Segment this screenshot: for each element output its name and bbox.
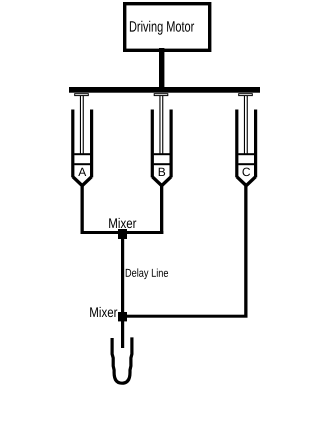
syringe C plunger cap bbox=[239, 94, 253, 96]
delay line wire vertical bbox=[121, 234, 124, 318]
mixer 1 junction bbox=[118, 229, 127, 239]
syringe C piston face bbox=[238, 153, 254, 155]
syringe B plunger rod bbox=[159, 96, 160, 154]
syringe C plunger rod bbox=[244, 96, 245, 154]
syringe B funnel bbox=[152, 177, 171, 186]
syringe C outlet wire vertical bbox=[244, 184, 247, 318]
syringe B liquid top line bbox=[154, 163, 170, 165]
collection tube inlet wire bbox=[121, 318, 124, 348]
collection tube bbox=[112, 337, 132, 383]
syringe A liquid top line bbox=[74, 163, 90, 165]
mixer 2 junction bbox=[118, 312, 127, 321]
syringe B barrel right wall bbox=[170, 110, 173, 178]
driving motor box bbox=[125, 4, 210, 51]
svg-text:Driving Motor: Driving Motor bbox=[129, 19, 194, 36]
svg-text:Delay Line: Delay Line bbox=[125, 268, 169, 280]
syringe A piston face bbox=[74, 153, 90, 155]
syringe C funnel bbox=[237, 177, 256, 186]
syringe A plunger rod bbox=[80, 96, 81, 154]
crossbar bbox=[69, 87, 260, 93]
syringe A barrel right wall bbox=[90, 110, 93, 178]
svg-text:Mixer: Mixer bbox=[108, 215, 136, 231]
svg-text:B: B bbox=[158, 165, 166, 179]
syringe B barrel left wall bbox=[151, 110, 154, 178]
svg-text:Mixer: Mixer bbox=[89, 304, 117, 320]
syringe B outlet needle wire bbox=[160, 184, 163, 235]
syringe A plunger cap bbox=[75, 94, 89, 96]
syringe B plunger cap bbox=[154, 94, 168, 96]
wire C to mixer 2 horizontal bbox=[122, 315, 248, 318]
svg-text:A: A bbox=[78, 165, 86, 179]
syringe A barrel left wall bbox=[71, 110, 74, 178]
syringe C barrel right wall bbox=[254, 110, 257, 178]
syringe A funnel bbox=[73, 177, 92, 186]
wire A-B manifold horizontal bbox=[81, 231, 164, 234]
syringe C barrel left wall bbox=[235, 110, 238, 178]
syringe A outlet needle wire bbox=[81, 184, 84, 235]
drive shaft bbox=[159, 48, 164, 88]
syringe B piston face bbox=[154, 153, 170, 155]
syringe C liquid top line bbox=[238, 163, 254, 165]
svg-text:C: C bbox=[242, 165, 251, 179]
